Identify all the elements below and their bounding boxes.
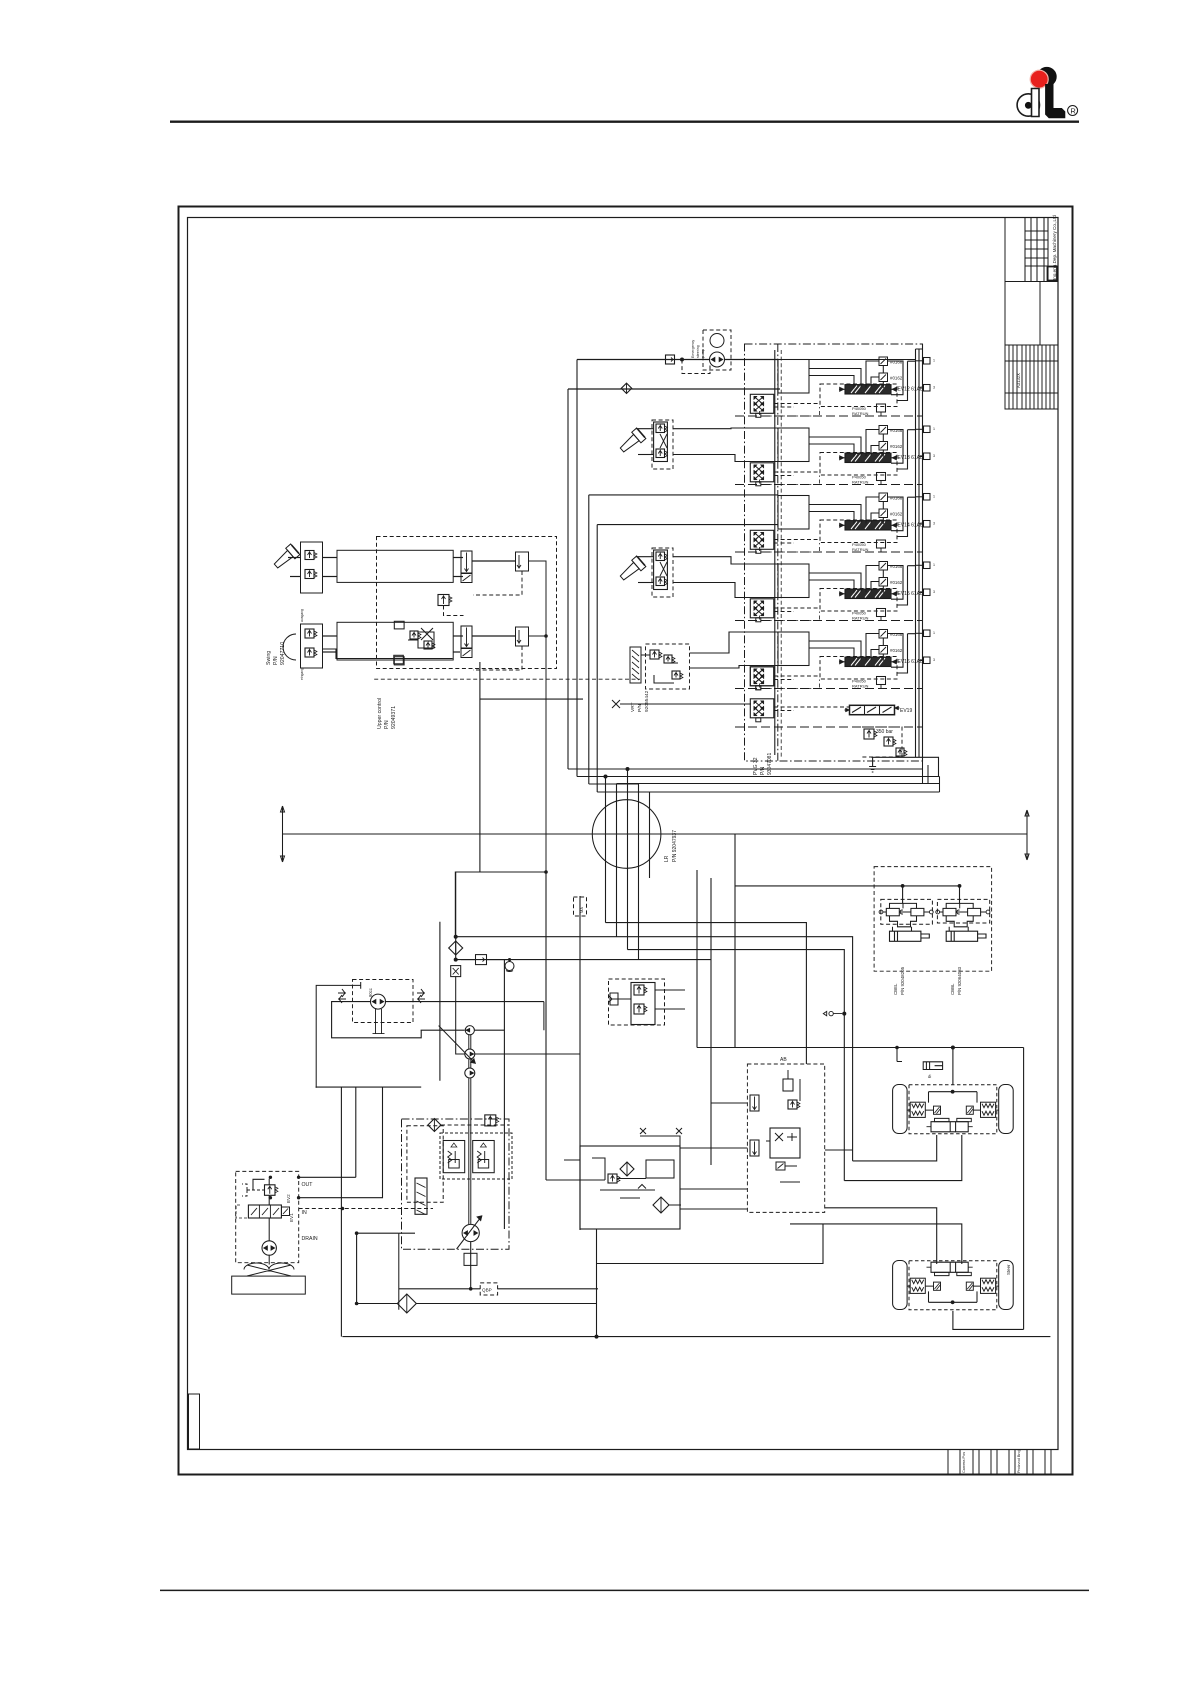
pilot line H2-box a	[453, 635, 463, 637]
valve section EV19 travel	[750, 667, 774, 686]
svg-text:#0168: #0168	[890, 632, 903, 637]
x marks manifold	[640, 1128, 682, 1134]
svg-text:#0168: #0168	[890, 360, 903, 365]
pilot line J2b	[638, 454, 654, 456]
port square T2	[394, 657, 404, 665]
svg-text:1: 1	[933, 631, 935, 635]
sec3 feed b	[597, 524, 778, 526]
check CN1 boxes	[410, 631, 418, 639]
drop x596	[596, 1229, 598, 1337]
svg-text:MA: MA	[579, 907, 584, 913]
svg-text:LR: LR	[664, 855, 670, 862]
svg-text:3: 3	[933, 590, 935, 594]
pilot relief 350bar + tank Y	[862, 727, 902, 757]
svg-text:#0162: #0162	[890, 648, 903, 653]
svg-text:ausgang: ausgang	[300, 609, 304, 622]
header rule	[170, 120, 1079, 122]
junction dots low bus	[454, 935, 458, 939]
steer line b	[597, 1224, 824, 1264]
svg-text:DRAIN: DRAIN	[302, 1236, 318, 1242]
sec3 feed a	[589, 494, 778, 496]
qbp line	[399, 1288, 598, 1290]
svg-text:#0168: #0168	[890, 428, 903, 433]
svg-text:P/N: P/N	[273, 656, 279, 665]
valve section EV15	[750, 599, 774, 618]
svg-text:3: 3	[933, 658, 935, 662]
rear axle cluster	[893, 1261, 908, 1310]
port square T1	[394, 621, 404, 629]
svg-text:Swing: Swing	[266, 651, 272, 665]
port valve PV1	[516, 552, 529, 571]
dashed drop PV2	[473, 646, 522, 670]
svg-text:1: 1	[933, 427, 935, 431]
company logo dL: d bowl dot	[1025, 102, 1031, 108]
swivel pass line a	[605, 777, 607, 923]
junction bottom	[595, 1335, 599, 1339]
J2 port box dashed	[652, 420, 673, 469]
svg-text:P/N 92064083: P/N 92064083	[957, 966, 962, 995]
gauge G1	[505, 962, 514, 971]
svg-text:Ing.eng.Dep. Machinery Co.,Lt: Ing.eng.Dep. Machinery Co.,Ltd	[1052, 215, 1057, 280]
pump outlet drop	[470, 1242, 472, 1289]
svg-text:P/N: P/N	[384, 720, 390, 729]
centerline end right	[1025, 810, 1029, 860]
svg-text:3: 3	[933, 386, 935, 390]
junction brake top	[951, 1046, 955, 1050]
pilot line J3a	[636, 556, 654, 558]
svg-text:3: 3	[933, 454, 935, 458]
svg-text:3: 3	[933, 522, 935, 526]
swing return line	[323, 649, 453, 659]
svg-text:Steer: Steer	[1006, 1264, 1011, 1275]
pilot joystick J2	[617, 428, 645, 455]
bank bottom feeder a	[628, 768, 923, 770]
pilot line J3b	[638, 582, 654, 584]
check network CN1	[408, 628, 434, 648]
valve section EV14	[750, 530, 774, 549]
svg-text:RATRUN: RATRUN	[852, 547, 868, 552]
bank right bus lines	[915, 349, 917, 757]
main pump assembly	[402, 1119, 510, 1249]
pilot line J2a right	[673, 427, 778, 430]
brake acc cylinder	[923, 1062, 942, 1070]
pump drain dashed	[682, 360, 710, 374]
line y959 fittings	[461, 959, 476, 961]
fan DRAIN dashed	[299, 1208, 433, 1210]
fan OUT line	[299, 1176, 356, 1178]
central manifold block	[580, 1146, 680, 1229]
front axle cluster	[893, 1085, 908, 1134]
J2 check bottom	[656, 449, 665, 458]
low bus y936	[456, 937, 853, 1161]
J3 port box dashed	[652, 548, 673, 597]
pilot line H2-box b	[453, 651, 460, 653]
J2 check top	[656, 424, 665, 433]
junction dots trunk	[604, 775, 608, 779]
right tall bus x1023	[1023, 1048, 1025, 1330]
B1 reducer bottom	[305, 570, 314, 579]
supply line to emergency pump	[577, 359, 710, 361]
J2 cross lines	[660, 434, 667, 448]
qbp box	[480, 1283, 497, 1295]
svg-text:VRT: VRT	[630, 702, 636, 712]
swing arc	[283, 634, 296, 660]
centerline end left	[281, 806, 285, 862]
trunk vertical d	[596, 525, 598, 792]
counterbalance valves CBEL/CBBL	[874, 867, 992, 972]
pilot line J1b	[290, 576, 301, 578]
svg-text:P/N 92048205: P/N 92048205	[900, 966, 905, 995]
PVG32 inner dash-dot vert	[777, 344, 779, 761]
pilot line J3b right	[673, 583, 778, 598]
ab feed	[897, 1048, 902, 1062]
suction route	[332, 1002, 422, 1038]
link SV2-PV2	[473, 635, 516, 637]
bank bottom feeder c	[606, 776, 940, 778]
swing control valve block B2	[301, 624, 323, 668]
trunk vertical a	[567, 389, 569, 769]
low bus y959	[456, 959, 711, 961]
svg-text:92055442: 92055442	[644, 690, 650, 712]
cb feed line riser	[734, 834, 736, 1048]
svg-text:#0168: #0168	[890, 496, 903, 501]
upper control outlet b	[529, 635, 547, 637]
title block	[1005, 218, 1058, 410]
B2 reducer bottom	[305, 648, 314, 657]
drawing inner border	[188, 218, 1059, 1450]
svg-text:PVG 32: PVG 32	[753, 757, 759, 775]
svg-text:RATRUN: RATRUN	[852, 480, 868, 485]
low bus y922	[606, 923, 807, 1064]
svg-text:1: 1	[933, 359, 935, 363]
company logo dL: L glyph	[1046, 85, 1065, 118]
bank feeder right verticals	[923, 761, 940, 792]
bottom bus y1337	[342, 1336, 1050, 1338]
dashed drop PV1	[473, 571, 522, 595]
drop x711	[710, 878, 712, 1165]
bottom-right title strip	[947, 1450, 949, 1475]
svg-text:R: R	[1070, 106, 1076, 115]
svg-text:#0162: #0162	[890, 580, 903, 585]
svg-text:IN: IN	[302, 1210, 307, 1216]
steer line a	[825, 1149, 853, 1151]
pilot return line y389	[568, 388, 780, 390]
trunk elbow a	[568, 768, 628, 770]
company logo dL: d stem	[1032, 89, 1040, 117]
rear axle brake pipe 1	[825, 1208, 937, 1264]
hydraulic tank	[232, 1276, 306, 1294]
pilot line H1-box a	[453, 557, 463, 559]
relief valve RV1 in upper control	[438, 595, 449, 606]
J3 cross lines	[660, 562, 667, 576]
ps drop	[456, 977, 465, 1054]
drop x697	[696, 870, 698, 1048]
J3 check top	[656, 552, 665, 561]
svg-text:CBEL: CBEL	[893, 983, 898, 995]
trunk elbow d	[597, 791, 649, 793]
svg-text:EV2: EV2	[286, 1194, 291, 1203]
emergency pump circle	[710, 352, 725, 367]
trunk elbow c	[589, 783, 639, 785]
machine split centerline	[283, 833, 1027, 835]
swivel pass line e	[649, 792, 651, 878]
valve section EV12	[750, 394, 774, 413]
emergency pump dashed box	[703, 330, 731, 370]
J3 port box solid	[654, 550, 668, 590]
drop x580	[579, 896, 581, 1230]
svg-text:1: 1	[933, 495, 935, 499]
svg-text:P/N: P/N	[760, 766, 766, 775]
pilot line B2-H2 a	[323, 635, 337, 637]
svg-text:RATRUN: RATRUN	[852, 411, 868, 416]
svg-text:P/N: P/N	[637, 703, 643, 712]
solenoid spool SV2	[461, 626, 472, 648]
fan blades	[244, 1263, 294, 1276]
fan IN route	[299, 1087, 383, 1198]
pilot line B1-H1 b	[323, 576, 337, 578]
long trunk x342	[340, 1087, 342, 1337]
footer rule	[160, 1589, 1089, 1591]
junction PV join	[544, 634, 548, 638]
solenoid spool SV1	[461, 551, 472, 573]
svg-text:EV1: EV1	[289, 1213, 294, 1222]
return filter F2	[397, 1294, 416, 1313]
junction dot at pump	[680, 358, 684, 362]
company logo dL: black circle	[1037, 67, 1056, 86]
PVG32 supply gallery	[774, 350, 776, 755]
svg-text:#0162: #0162	[890, 444, 903, 449]
drop x480 from control box	[479, 662, 481, 872]
bank bottom elbow 757	[872, 757, 939, 776]
pilot joystick J3	[617, 556, 645, 583]
orifice on x844	[823, 1011, 842, 1015]
fold mark bottom-left	[189, 1394, 200, 1449]
gear pump 90cc	[353, 980, 414, 1023]
PVG32 dash-dot frame	[745, 344, 923, 761]
rear axle bottom feed	[953, 1311, 1024, 1329]
PVG32 inner dashed vert	[780, 350, 782, 757]
fan motor valve unit	[236, 1171, 299, 1262]
svg-text:#0162: #0162	[890, 512, 903, 517]
svg-text:RATRUN: RATRUN	[852, 616, 868, 621]
check CB2	[476, 955, 487, 965]
fan out riser x355	[355, 1087, 357, 1177]
svg-text:RATRUN: RATRUN	[852, 684, 868, 689]
pilot line J1a	[288, 557, 301, 559]
svg-text:Emergency: Emergency	[691, 340, 695, 358]
upper control dashed enclosure	[377, 537, 557, 669]
svg-text:92049371: 92049371	[391, 706, 397, 729]
brake block left links	[680, 1103, 747, 1148]
pressure switch box	[451, 966, 461, 977]
swivel joint circle LR	[592, 800, 661, 869]
MA test port box	[574, 897, 587, 916]
spool block drop	[399, 1233, 415, 1310]
valve section EV13	[750, 463, 774, 482]
svg-text:pump: pump	[701, 349, 705, 358]
filter diamond on y389	[621, 383, 631, 393]
svg-text:P/N 92047937: P/N 92047937	[672, 830, 678, 862]
J3 check bottom	[656, 577, 665, 586]
hose bundle rect H2	[337, 622, 453, 660]
junction G1	[508, 958, 511, 961]
svg-text:steering: steering	[696, 345, 700, 358]
front axle feed	[952, 1048, 954, 1086]
pilot relief manifold	[609, 979, 665, 1025]
pilot line J3a right	[673, 557, 778, 564]
brake top line	[697, 1047, 1024, 1049]
svg-text:A3132X: A3132X	[1016, 373, 1021, 388]
company logo dL: registered mark	[1068, 106, 1078, 116]
left drop x455	[455, 872, 457, 960]
emergency pump motor circle	[710, 334, 724, 348]
company logo dL: red circle	[1030, 70, 1048, 88]
pilot line J2a	[636, 428, 654, 430]
svg-text:AB: AB	[780, 1057, 787, 1063]
low bus y949	[628, 950, 845, 1181]
manifold frame right	[640, 1136, 747, 1229]
trunk elbow b	[577, 776, 617, 778]
engine link line	[421, 1029, 465, 1031]
VRT link to bank	[690, 632, 778, 668]
svg-text:EV19: EV19	[900, 708, 912, 714]
bank bottom feeder b	[617, 783, 940, 785]
svg-text:93047081: 93047081	[767, 753, 773, 775]
engine stub	[439, 922, 441, 1081]
company logo dL: d bowl	[1017, 94, 1039, 116]
swivel pass line d	[638, 784, 640, 960]
svg-text:OUT: OUT	[302, 1182, 314, 1188]
fan IN line dots	[269, 1196, 272, 1199]
swivel pass line c	[627, 769, 629, 950]
trunk vertical c	[588, 495, 590, 784]
B1 reducer top	[305, 551, 314, 560]
svg-text:CBBL: CBBL	[950, 983, 955, 995]
hose bundle rect H1	[337, 550, 453, 582]
drop x546	[545, 872, 547, 1180]
front axle brake pipe 1	[853, 1135, 937, 1161]
svg-text:90cc: 90cc	[368, 988, 373, 997]
svg-text:Proizvod Broj: Proizvod Broj	[1017, 1450, 1021, 1473]
remote control valve block B1	[301, 542, 323, 593]
line pump to bank	[725, 359, 779, 361]
VRT float valve block	[630, 647, 641, 683]
valve section EV16	[750, 667, 774, 686]
J2 port box solid	[654, 422, 668, 462]
svg-text:Upper control: Upper control	[377, 698, 383, 729]
filter F1	[449, 941, 463, 955]
pilot line B1-H1 a	[323, 557, 337, 559]
bank right bus top hook	[778, 349, 923, 360]
return line y1303	[357, 1303, 597, 1305]
svg-text:350 bar: 350 bar	[876, 729, 893, 735]
trunk vertical b	[576, 360, 578, 777]
svg-text:QBP: QBP	[482, 1288, 492, 1293]
svg-text:#0168: #0168	[890, 564, 903, 569]
pilot line B2-H2 b	[323, 651, 337, 653]
front axle brake pipe 2	[844, 1135, 962, 1181]
svg-text:#0162: #0162	[890, 376, 903, 381]
upper control outlet a	[455, 561, 546, 936]
pilot line H1-box b	[453, 576, 463, 578]
brake charge valve block	[747, 1064, 824, 1212]
junction fan drain	[341, 1207, 345, 1211]
upper control drain dashed	[374, 678, 640, 680]
svg-text:1: 1	[933, 563, 935, 567]
port valve PV2	[516, 627, 529, 646]
x356 lower segment	[357, 1233, 399, 1303]
rear axle brake pipe 2	[790, 1224, 962, 1264]
link SV1-PV1	[473, 560, 516, 562]
RV1 link	[444, 606, 464, 616]
bank bottom feeder d	[639, 791, 940, 793]
drawing outer border	[179, 207, 1073, 1475]
svg-text:di: di	[928, 1074, 931, 1079]
B2 reducer top	[305, 629, 314, 638]
pilot joystick J1 (upper control)	[271, 544, 299, 571]
suction gallery bottom	[316, 1086, 422, 1088]
svg-text:eingang: eingang	[300, 668, 304, 680]
svg-text:Camera Pos: Camera Pos	[962, 1452, 966, 1473]
swivel pass line b	[616, 784, 618, 937]
drop x504	[503, 960, 505, 1229]
pilot line J2b right	[673, 455, 778, 462]
check box CB1 on supply	[666, 355, 675, 364]
